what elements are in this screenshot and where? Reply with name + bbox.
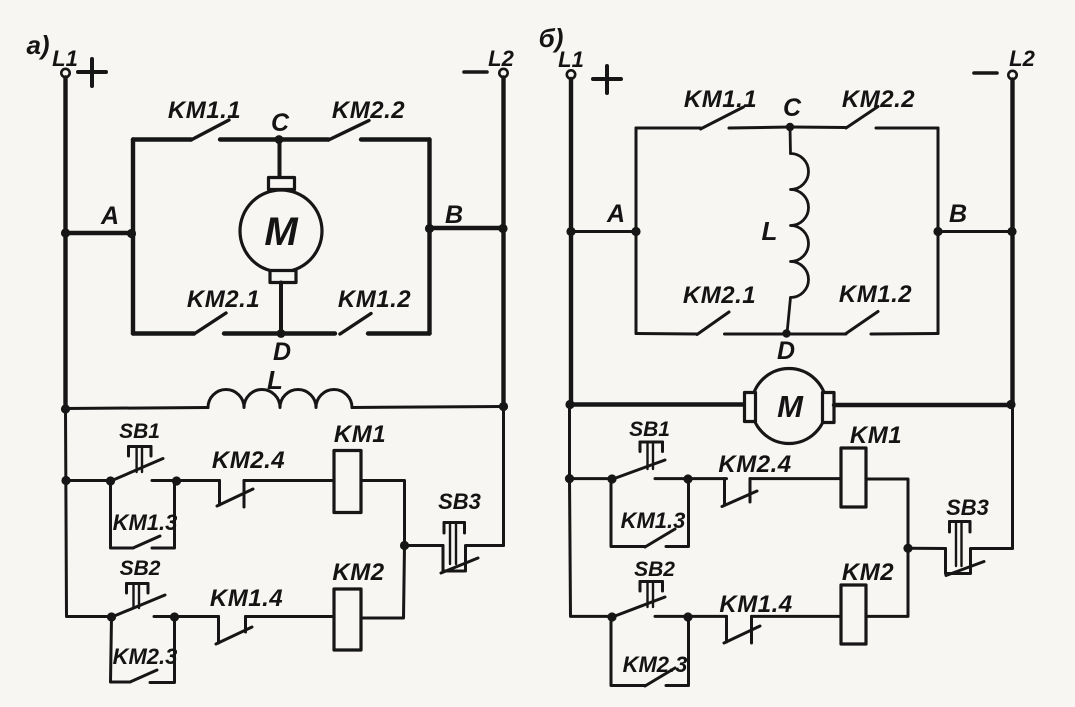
inductor L (b)	[762, 127, 809, 334]
svg-text:L2: L2	[488, 46, 514, 71]
wire bridge right (b)	[937, 128, 940, 334]
terminal L1 (a)	[52, 46, 78, 77]
wire motor to D (a)	[279, 283, 283, 335]
svg-text:KM2.1: KM2.1	[187, 286, 260, 313]
wire bridge right (a)	[427, 140, 431, 334]
plus sign (a)	[78, 59, 106, 86]
svg-text:KM1.4: KM1.4	[719, 591, 792, 618]
wire left rail lower (b)	[570, 405, 613, 617]
svg-text:KM1.1: KM1.1	[168, 97, 241, 124]
svg-text:KM1.4: KM1.4	[210, 585, 283, 612]
svg-text:SB1: SB1	[119, 420, 160, 443]
svg-text:L1: L1	[558, 47, 584, 72]
svg-text:KM1: KM1	[850, 422, 902, 449]
svg-text:KM2.2: KM2.2	[842, 86, 915, 113]
wire rail to SB1 (a)	[66, 479, 111, 482]
svg-text:a): a)	[26, 30, 49, 60]
label a)	[26, 30, 49, 60]
motor M (b)	[745, 369, 835, 444]
contact KM2.1 (a)	[133, 286, 281, 334]
coil KM1 (a)	[334, 421, 386, 513]
contact KM2.1 (b)	[636, 282, 787, 335]
node A (a)	[61, 202, 136, 238]
plus sign (b)	[593, 66, 621, 93]
svg-text:L1: L1	[52, 46, 78, 71]
svg-text:KM2.3: KM2.3	[623, 652, 688, 677]
node C (b)	[783, 94, 802, 131]
svg-text:SB3: SB3	[438, 489, 481, 514]
svg-text:B: B	[949, 200, 967, 228]
terminal L2 (a)	[488, 46, 514, 77]
contact KM2.2 (b)	[790, 86, 938, 128]
node motor row left (b)	[565, 400, 574, 409]
wire motor row left (b)	[571, 402, 745, 406]
wire bridge left (b)	[635, 128, 638, 334]
svg-text:M: M	[264, 210, 299, 254]
contact KM1.4 (b)	[719, 591, 841, 643]
contact KM1.3 (b)	[611, 474, 693, 547]
svg-text:L: L	[762, 216, 778, 246]
svg-text:KM1.3: KM1.3	[621, 508, 686, 533]
wire KM1 to SB3 node (a)	[361, 481, 405, 546]
terminal L1 (b)	[558, 47, 584, 79]
inductor L (a)	[66, 365, 504, 409]
wire SB2 to KM1.4 (b)	[688, 615, 727, 618]
svg-text:C: C	[783, 94, 802, 122]
coil KM2 (a)	[332, 559, 384, 650]
contact KM1.3	[111, 476, 182, 548]
svg-text:KM2.2: KM2.2	[332, 97, 405, 124]
svg-text:SB2: SB2	[634, 558, 675, 581]
button SB1	[106, 420, 177, 486]
node L-row right (a)	[499, 402, 508, 411]
button SB3 (a)	[405, 489, 504, 573]
wire SB1 to KM2.4 (b)	[688, 477, 727, 480]
contact KM1.2 (b)	[787, 281, 939, 334]
minus sign (b)	[974, 71, 997, 75]
node D (b)	[777, 329, 795, 365]
node D (a)	[273, 329, 291, 366]
wire L2 rail (b)	[1010, 80, 1014, 406]
contact KM2.4 (a)	[212, 447, 334, 507]
node L-row left (a)	[61, 404, 70, 413]
contact KM2.3 (b)	[611, 612, 693, 686]
contact KM2.4 (b)	[718, 451, 841, 507]
wire KM1 to SB3 node (b)	[866, 479, 908, 548]
contact KM1.1 (b)	[636, 86, 790, 129]
svg-text:SB3: SB3	[946, 495, 989, 520]
coil KM1 (b)	[841, 422, 902, 507]
svg-text:KM2.4: KM2.4	[212, 447, 285, 474]
svg-text:L: L	[267, 365, 283, 395]
wire KM2 to SB3 node (b)	[866, 548, 908, 616]
svg-text:KM2: KM2	[842, 559, 894, 586]
label b)	[539, 23, 564, 53]
wire L1 rail (b)	[569, 79, 573, 405]
svg-text:D: D	[777, 337, 795, 365]
wire KM2 to SB3 node (a)	[361, 546, 405, 619]
svg-text:KM2: KM2	[332, 559, 384, 586]
coil KM2 (b)	[841, 559, 894, 644]
minus sign (a)	[464, 70, 487, 74]
wire L2 rail lower (a)	[502, 407, 505, 546]
node SB3 (a)	[400, 541, 409, 550]
svg-text:A: A	[606, 200, 625, 228]
wire C to motor (a)	[278, 140, 282, 179]
contact KM1.2 (a)	[281, 286, 430, 334]
button SB2 (b)	[607, 558, 688, 622]
contact KM1.1	[133, 97, 279, 140]
svg-text:KM1.3: KM1.3	[113, 510, 178, 535]
wire L2 rail lower (b)	[1011, 405, 1014, 548]
button SB3 (b)	[908, 495, 1013, 576]
node rail row1 (a)	[61, 476, 70, 485]
svg-text:SB2: SB2	[120, 557, 161, 580]
contact KM1.4 (a)	[210, 585, 334, 644]
svg-text:B: B	[445, 201, 463, 229]
wire SB1 to KM2.4 (a)	[177, 479, 220, 482]
svg-text:KM2.3: KM2.3	[113, 644, 178, 669]
wire L2 rail (a)	[501, 78, 505, 408]
wire L1 rail (a)	[63, 78, 67, 411]
svg-text:C: C	[271, 109, 290, 137]
svg-text:D: D	[273, 338, 291, 366]
node B (a)	[425, 201, 508, 233]
node C (a)	[271, 109, 290, 144]
wire SB2 to KM1.4 (a)	[175, 615, 219, 618]
node SB3 (b)	[903, 544, 912, 553]
svg-text:KM1.2: KM1.2	[338, 286, 411, 313]
svg-text:KM2.4: KM2.4	[718, 451, 791, 478]
wire left rail lower (a)	[66, 410, 112, 617]
svg-text:M: M	[777, 389, 804, 424]
motor M (a)	[240, 178, 322, 283]
svg-text:A: A	[100, 202, 119, 230]
node B (b)	[933, 200, 1016, 236]
button SB1 (b)	[607, 418, 688, 484]
svg-text:KM1.1: KM1.1	[684, 86, 757, 113]
svg-text:L2: L2	[1009, 46, 1035, 71]
node A (b)	[566, 200, 640, 236]
svg-text:SB1: SB1	[629, 418, 670, 441]
node rail row1 (b)	[565, 474, 574, 483]
contact KM2.3	[111, 612, 180, 682]
node motor row right (b)	[1006, 400, 1015, 409]
contact KM2.2 (a)	[279, 97, 430, 140]
wire rail to SB1 (b)	[570, 477, 613, 480]
svg-text:KM1: KM1	[334, 421, 386, 448]
wire bridge left (a)	[131, 140, 135, 334]
wire motor row right (b)	[834, 403, 1013, 407]
svg-text:KM1.2: KM1.2	[839, 281, 912, 308]
svg-text:KM2.1: KM2.1	[683, 282, 756, 309]
terminal L2 (b)	[1008, 46, 1035, 79]
button SB2	[107, 557, 175, 622]
